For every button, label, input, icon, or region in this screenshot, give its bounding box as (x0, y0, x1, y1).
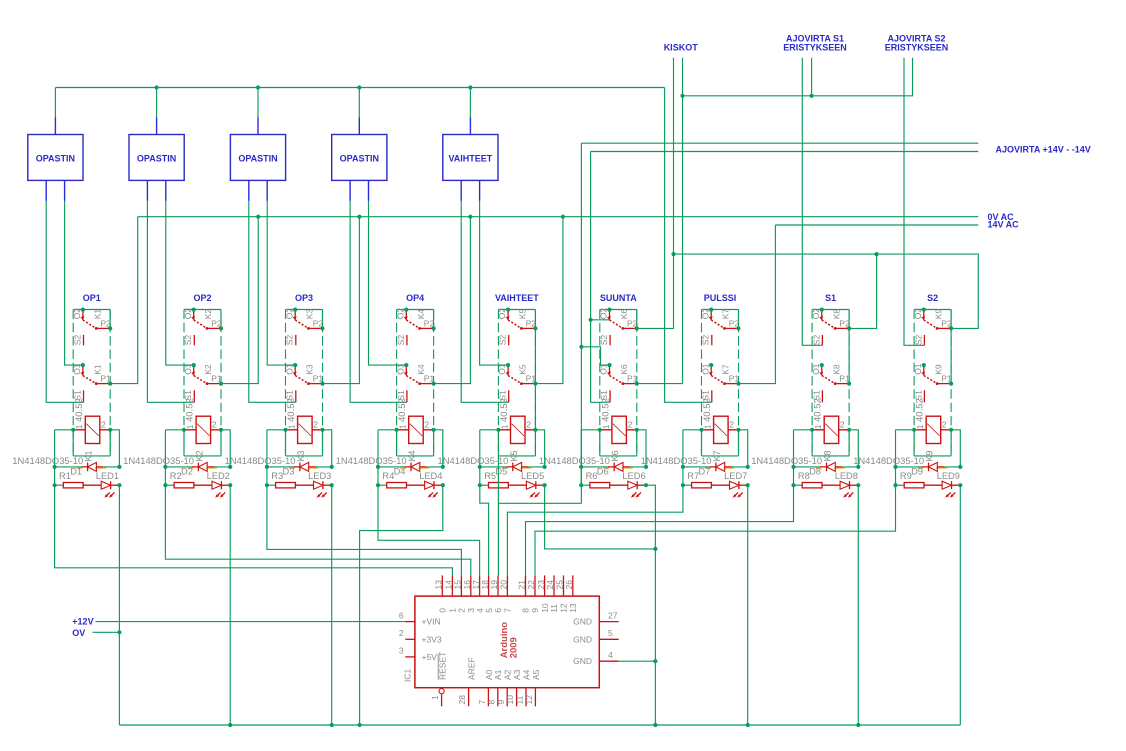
pin S1 of relay K6 (609, 390, 611, 402)
pin 1 of coil K7 (699, 428, 703, 432)
pin P1 of K3 (320, 382, 324, 386)
node diode row left col7 (681, 465, 685, 469)
pin P1 of K9 (949, 382, 953, 386)
coil of relay K9 (926, 416, 941, 443)
wire AJOVIRTA S1 pin1 to col8 S2 (802, 58, 822, 346)
coil of relay K1 (85, 416, 100, 443)
svg-text:40.52: 40.52 (499, 398, 510, 422)
wire coil1 K7 to left rail (683, 429, 702, 431)
wire col2 left rail to pin16 (165, 485, 470, 575)
svg-text:R4: R4 (382, 471, 394, 481)
node resistor row left col2 (163, 483, 167, 487)
svg-text:13: 13 (568, 603, 578, 613)
svg-text:OPASTIN: OPASTIN (340, 153, 379, 163)
node diode row right col3 (330, 465, 334, 469)
svg-text:1N4148DO35-10: 1N4148DO35-10 (751, 455, 822, 466)
svg-text:+5V: +5V (422, 652, 438, 662)
wire diode row right col9 (944, 466, 960, 468)
wire col9 P2-P1 along right edge (950, 328, 952, 383)
svg-text:S1: S1 (825, 293, 836, 303)
svg-text:P1: P1 (100, 374, 111, 384)
wire KISKOT pin1 to bus2 and col6 P2 (637, 58, 674, 329)
svg-text:40.52: 40.52 (600, 398, 611, 422)
svg-text:A5: A5 (531, 669, 541, 680)
junction top bus box2 (155, 85, 159, 89)
pin O2 of K8 (820, 308, 824, 312)
outline relay K7 left edge (dashed) (701, 310, 703, 456)
svg-text:SUUNTA: SUUNTA (600, 293, 637, 303)
wire col6 right rail jog to GND vertical (646, 485, 655, 725)
junction bus1 dropper (561, 215, 565, 219)
outline relay K9 bottom edge (914, 455, 951, 457)
svg-text:13: 13 (434, 580, 444, 590)
svg-text:O2: O2 (72, 308, 82, 320)
node resistor row right col8 (856, 483, 860, 487)
LED3 emission arrows (318, 492, 322, 496)
contact 1 of relay K4 (405, 310, 407, 320)
pin P1 of K6 (635, 382, 639, 386)
node resistor row right col1 (117, 483, 121, 487)
svg-text:LED8: LED8 (835, 471, 858, 481)
pin P2 of K6 (635, 326, 639, 330)
pin 1 of coil K9 (912, 428, 916, 432)
wire col4 right rail to bottom bus (360, 485, 443, 725)
svg-text:1: 1 (185, 424, 195, 429)
svg-text:21: 21 (517, 580, 527, 590)
svg-text:S2: S2 (811, 335, 821, 346)
svg-text:D3: D3 (283, 467, 295, 477)
outline relay K1 right edge (dashed) (109, 310, 111, 456)
svg-text:LED5: LED5 (521, 471, 544, 481)
pin S1 of relay K3 (295, 390, 297, 402)
pin 2 of coil K4 (432, 428, 436, 432)
Arduino IC1 (2009) body (415, 596, 599, 688)
contact 2 of relay K2 (193, 366, 195, 376)
junction bus1 dropper (357, 215, 361, 219)
wire box1 pinL to col1 S1 (46, 201, 83, 402)
outline relay K5 left edge (dashed) (497, 310, 499, 456)
svg-text:+3V3: +3V3 (422, 634, 442, 644)
svg-text:26: 26 (564, 580, 574, 590)
wire col1 right rail to bottom bus (118, 485, 120, 725)
svg-text:R8: R8 (798, 471, 810, 481)
contact 2 of relay K4 (405, 366, 407, 376)
pin stub box4 bottom-right (blue) (368, 180, 370, 201)
svg-text:40.52: 40.52 (915, 398, 926, 422)
wire K4 right edge top solid (433, 310, 435, 329)
svg-text:D7: D7 (699, 467, 711, 477)
svg-text:2: 2 (313, 420, 318, 430)
wire coil2 K8 to right rail (849, 430, 858, 467)
pin 2 of coil K2 (219, 428, 223, 432)
pin S1 of relay K5 (508, 390, 510, 402)
wire coil1 K6 to left rail (581, 429, 600, 431)
svg-text:1N4148DO35-10: 1N4148DO35-10 (336, 455, 407, 466)
wire bus1 end to col1 P1 (110, 217, 138, 384)
wire K7 right edge top solid (738, 310, 740, 329)
wire coil2 K4 to right rail (434, 430, 443, 467)
pin S1 of relay K9 (923, 390, 925, 402)
svg-text:4: 4 (608, 650, 613, 660)
svg-text:14V AC: 14V AC (988, 219, 1020, 229)
wire coil2 K1 to right rail (110, 430, 119, 467)
wire box3 pinL to col3 S1 (249, 201, 296, 402)
wire left rail col6 (580, 430, 582, 485)
node resistor row left col6 (579, 483, 583, 487)
pin 18 (digital 5) stub (488, 575, 490, 596)
pin S2 of relay K3 (295, 335, 297, 345)
outline relay K6 top edge (600, 309, 637, 311)
box U4 OPASTIN (332, 135, 387, 181)
svg-text:40.52: 40.52 (185, 398, 196, 422)
LED7 emission arrows (734, 492, 738, 496)
pin stub box1 bottom-right (blue) (64, 180, 66, 201)
svg-text:OPASTIN: OPASTIN (36, 153, 75, 163)
LED2 symbol (212, 481, 221, 489)
junction top bus box3 (256, 85, 260, 89)
pin S2 of relay K6 (609, 335, 611, 345)
wire box5 pinL to col5 S1 (461, 201, 509, 402)
wire top bus downturn to col7 S1 (665, 88, 712, 403)
outline relay K3 left edge (dashed) (285, 310, 287, 456)
coil of relay K4 (409, 416, 424, 443)
node resistor row left col5 (478, 483, 482, 487)
wire coil2 K9 to right rail (951, 430, 960, 467)
svg-text:KISKOT: KISKOT (664, 43, 699, 53)
wire col8 right rail to bottom bus (857, 485, 859, 725)
svg-text:P1: P1 (424, 374, 435, 384)
wire OV to col1 right rail (93, 631, 120, 633)
svg-text:P2: P2 (424, 318, 435, 328)
wire box1 pinR to col1 O1 (65, 201, 83, 365)
svg-text:S2: S2 (913, 335, 923, 346)
svg-text:O1: O1 (395, 363, 405, 375)
svg-text:40.52: 40.52 (702, 398, 713, 422)
junction bottom bus (746, 723, 750, 727)
box U1 OPASTIN (28, 135, 83, 181)
svg-text:R9: R9 (900, 471, 912, 481)
svg-text:ERISTYKSEEN: ERISTYKSEEN (783, 43, 847, 53)
pin P1 of K1 (108, 382, 112, 386)
svg-text:K5: K5 (509, 450, 519, 461)
wire AJOVIRTA S2 pin1 to col9 S2 (904, 58, 924, 346)
wire diode row right col8 (842, 466, 858, 468)
pin 28 (AREF) stub (468, 688, 470, 707)
wire K5 coil loop (498, 430, 535, 456)
svg-text:9: 9 (530, 608, 540, 613)
wire box4 top pin (358, 88, 360, 118)
node diode row left col9 (893, 465, 897, 469)
contact 1 of relay K8 (821, 310, 823, 320)
pin 2 of coil K5 (533, 428, 537, 432)
pin 1 of coil K4 (395, 428, 399, 432)
coil of relay K5 (511, 416, 526, 443)
LED1 symbol (101, 481, 110, 489)
pin 1 of coil K8 (810, 428, 814, 432)
node resistor row right col5 (543, 483, 547, 487)
svg-text:RESET: RESET (438, 652, 448, 680)
pin 25 (digital 12) stub (563, 575, 565, 596)
svg-text:S2: S2 (396, 335, 406, 346)
svg-text:OP3: OP3 (295, 293, 313, 303)
node diode row right col6 (644, 465, 648, 469)
wire diode row left col7 (683, 466, 710, 468)
wire col1 left rail to pin14 (55, 485, 453, 575)
pin stub box2 bottom-right (blue) (165, 180, 167, 201)
wire resistor row left col1 (55, 484, 64, 486)
wire K2 coil loop (184, 430, 221, 456)
outline relay K8 right edge (dashed) (848, 310, 850, 456)
pin 24 (digital 11) stub (553, 575, 555, 596)
outline relay K4 left edge (dashed) (396, 310, 398, 456)
svg-text:K2: K2 (194, 450, 204, 461)
LED4 emission arrows (429, 492, 433, 496)
junction bus1 dropper (468, 215, 472, 219)
pin 16 (digital 3) stub (470, 575, 472, 596)
LED6 symbol (628, 481, 637, 489)
pin 7 (A0) stub (487, 688, 489, 707)
svg-text:1: 1 (74, 424, 84, 429)
svg-text:D2: D2 (181, 467, 193, 477)
LED2 emission arrows (217, 492, 221, 496)
pin 20 (digital 7) stub (506, 575, 508, 596)
wire col4 left rail to pin17 (378, 485, 480, 575)
outline relay K4 bottom edge (397, 455, 434, 457)
pin 17 (digital 4) stub (479, 575, 481, 596)
node resistor row left col8 (791, 483, 795, 487)
wire left rail col7 (682, 430, 684, 485)
pin O2 of K5 (506, 308, 510, 312)
wire diode row right col6 (630, 466, 646, 468)
wire 14V AC to col7 P1 (739, 225, 776, 384)
wire box3 top pin (257, 88, 259, 118)
svg-text:P2: P2 (729, 318, 740, 328)
node resistor row left col7 (681, 483, 685, 487)
junction bus2 KISKOT pin1 (671, 252, 675, 256)
svg-text:O2: O2 (913, 308, 923, 320)
svg-text:1N4148DO35-10: 1N4148DO35-10 (123, 455, 194, 466)
svg-text:S2: S2 (927, 293, 938, 303)
svg-text:S2: S2 (183, 335, 193, 346)
pin O1 of K7 (709, 363, 713, 367)
pin 5 (GND) stub (599, 638, 618, 640)
pin 26 (digital 13) stub (572, 575, 574, 596)
pin 4 (GND) stub (599, 660, 618, 662)
svg-text:OPASTIN: OPASTIN (137, 153, 176, 163)
contact 2 of relay K6 (609, 366, 611, 376)
contact 1 of relay K1 (82, 310, 84, 320)
node diode row right col5 (543, 465, 547, 469)
pin 11 (A4) stub (525, 688, 527, 707)
wire diode row right col2 (214, 466, 230, 468)
wire col3 right rail to bottom bus (331, 485, 333, 725)
wire left rail col4 (377, 430, 379, 485)
pin stub box5 bottom-left (blue) (460, 180, 462, 201)
svg-text:5: 5 (608, 628, 613, 638)
pin P1 of K4 (432, 382, 436, 386)
outline relay K3 top edge (286, 309, 323, 311)
wire left rail col1 (54, 430, 56, 485)
svg-text:R5: R5 (484, 471, 496, 481)
wire K4 coil loop (397, 430, 434, 456)
wire diode row left col4 (378, 466, 405, 468)
wire col7 right rail to bottom bus (747, 485, 749, 725)
wire K6 right edge top solid (636, 310, 638, 329)
svg-text:1N4148DO35-10: 1N4148DO35-10 (539, 455, 610, 466)
pin stub box5 bottom-right (blue) (479, 180, 481, 201)
pin O1 of K3 (293, 363, 297, 367)
svg-text:O1: O1 (913, 363, 923, 375)
LED9 symbol (942, 481, 951, 489)
svg-text:O2: O2 (395, 308, 405, 320)
pin O2 of K1 (81, 308, 85, 312)
pin P2 of K3 (320, 326, 324, 330)
node diode row right col1 (117, 465, 121, 469)
wire coil1 K3 to left rail (267, 429, 286, 431)
svg-text:S2: S2 (701, 335, 711, 346)
svg-text:D4: D4 (394, 467, 406, 477)
wire box5 top pin (469, 88, 471, 118)
junction bus2 col8 dropper (875, 252, 879, 256)
pin 10 (A3) stub (516, 688, 518, 707)
pin S1 of relay K8 (821, 390, 823, 402)
wire col3 left rail to pin15 (267, 485, 462, 575)
svg-text:P1: P1 (211, 374, 222, 384)
wire KISKOT pin2 to col6 P1 (682, 58, 684, 384)
outline relay K8 top edge (812, 309, 849, 311)
pin stub box1 top (blue) (54, 117, 56, 134)
coil of relay K7 (714, 416, 729, 443)
wire coil2 K3 to right rail (323, 430, 332, 467)
svg-text:P2: P2 (211, 318, 222, 328)
wire bottom bus 0V (119, 724, 960, 726)
pin stub box3 top (blue) (257, 117, 259, 134)
svg-text:2: 2 (628, 420, 633, 430)
yellow net highlight on diode row col4 (400, 467, 430, 469)
wire K2 right edge top solid (220, 310, 222, 329)
wire K5 right edge top solid (534, 310, 536, 329)
wire K9 coil loop (914, 430, 951, 456)
outline relay K9 right edge (dashed) (950, 310, 952, 456)
node diode row right col8 (856, 465, 860, 469)
wire bus2 dropper to col8 P2 (849, 254, 877, 328)
pin O1 of K9 (922, 363, 926, 367)
wire col7 left rail to pin20 (507, 485, 683, 575)
outline relay K1 top edge (73, 309, 110, 311)
svg-text:S2: S2 (285, 335, 295, 346)
svg-text:R7: R7 (687, 471, 699, 481)
junction GND line col5 (653, 547, 657, 551)
LED5 symbol (526, 481, 535, 489)
wire GND pin4 to GND vertical (619, 660, 656, 662)
pin stub box2 bottom-left (blue) (146, 180, 148, 201)
wire coil2 K6 to right rail (637, 430, 646, 467)
wire box4 pinR to col4 O1 (369, 201, 407, 365)
node diode row left col2 (163, 465, 167, 469)
wire K8 coil loop (812, 430, 849, 456)
wire diode row right col5 (528, 466, 544, 468)
wire resistor row left col8 (794, 484, 803, 486)
LED4 symbol (425, 481, 434, 489)
junction top bus box4 (357, 85, 361, 89)
node resistor row left col3 (265, 483, 269, 487)
pin stub box4 bottom-left (blue) (349, 180, 351, 201)
outline relay K7 top edge (702, 309, 739, 311)
wire coil2 K5 to right rail (535, 430, 544, 467)
wire left rail col8 (793, 430, 795, 485)
yellow net highlight on diode row col9 (918, 467, 948, 469)
node diode row right col9 (958, 465, 962, 469)
wire K9 right edge top solid (950, 310, 952, 329)
svg-text:K9: K9 (925, 450, 935, 461)
svg-text:27: 27 (608, 610, 618, 620)
wire coil1 K2 to left rail (165, 429, 184, 431)
wire col5 left rail to pin18 (480, 485, 489, 575)
pin O1 of K5 (506, 363, 510, 367)
svg-text:K8: K8 (823, 450, 833, 461)
svg-text:D9: D9 (911, 467, 923, 477)
svg-text:40.52: 40.52 (74, 398, 85, 422)
pin S1 of relay K4 (406, 390, 408, 402)
wire box1 top pin (54, 88, 56, 118)
svg-text:P2: P2 (941, 318, 952, 328)
svg-text:P1: P1 (526, 374, 537, 384)
wire col9 right rail to bottom bus (959, 485, 961, 725)
svg-text:11: 11 (549, 604, 559, 613)
outline relay K7 bottom edge (702, 455, 739, 457)
svg-text:P1: P1 (313, 374, 324, 384)
pin O2 of K6 (607, 308, 611, 312)
node resistor row left col1 (53, 483, 57, 487)
contact 1 of relay K2 (193, 310, 195, 320)
wire coil1 K8 to left rail (794, 429, 813, 431)
svg-text:2: 2 (942, 420, 947, 430)
svg-text:6: 6 (399, 610, 404, 620)
outline relay K9 top edge (914, 309, 951, 311)
svg-text:K4: K4 (407, 450, 417, 461)
svg-text:3: 3 (399, 646, 404, 656)
wire bus1 dropper to col3 P1 (323, 217, 360, 384)
contact 2 of relay K9 (923, 366, 925, 376)
node diode row left col3 (265, 465, 269, 469)
pin O1 of K4 (404, 363, 408, 367)
svg-text:P2: P2 (313, 318, 324, 328)
pin S2 of relay K4 (406, 335, 408, 345)
svg-text:LED1: LED1 (96, 471, 119, 481)
yellow net highlight on diode row col3 (289, 467, 319, 469)
pin P1 of K8 (847, 382, 851, 386)
node resistor row right col4 (441, 483, 445, 487)
pin 14 (digital 1) stub (451, 575, 453, 596)
pin O2 of K4 (404, 308, 408, 312)
pin S2 of relay K1 (83, 335, 85, 345)
svg-text:8: 8 (521, 608, 531, 613)
svg-text:+VIN: +VIN (422, 617, 441, 627)
pin 2 of coil K3 (320, 428, 324, 432)
svg-text:P2: P2 (100, 318, 111, 328)
svg-text:O1: O1 (183, 363, 193, 375)
svg-text:2: 2 (101, 420, 106, 430)
outline relay K5 top edge (498, 309, 535, 311)
svg-text:1: 1 (703, 424, 713, 429)
svg-text:S2: S2 (599, 335, 609, 346)
wire coil1 K5 to left rail (480, 429, 499, 431)
svg-text:ERISTYKSEEN: ERISTYKSEEN (885, 43, 949, 53)
outline relay K2 bottom edge (184, 455, 221, 457)
wire box2 pinL to col2 S1 (147, 201, 194, 402)
pin 2 (+3V3) stub (405, 638, 415, 640)
svg-text:VAIHTEET: VAIHTEET (448, 153, 492, 163)
